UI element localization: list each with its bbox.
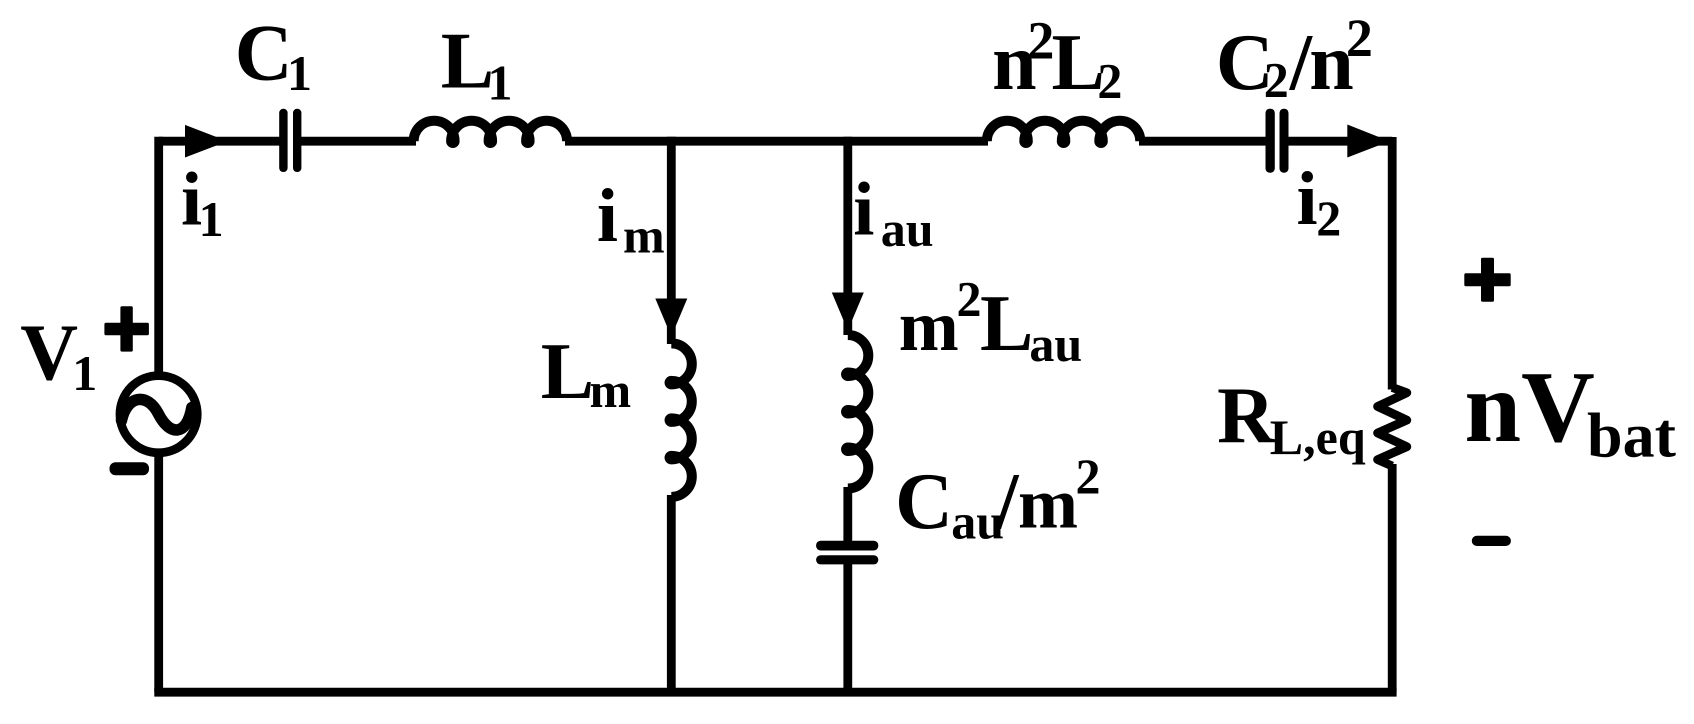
svg-text:C: C [895, 458, 953, 546]
wire right rail upper (corner to resistor) [1388, 137, 1397, 390]
plus sign at source [104, 323, 148, 335]
wire top rail: n2L2 to C2 [1139, 137, 1267, 146]
wire top rail: L1 to n2L2 [565, 137, 988, 146]
inductor m2Lau [846, 335, 868, 489]
wire branch au lower (Cau to bottom rail) [843, 563, 852, 692]
svg-text:V: V [20, 310, 78, 398]
wire top rail: source corner to C1 [159, 137, 280, 146]
arrow im [655, 299, 687, 337]
svg-text:m: m [1018, 464, 1078, 544]
svg-text:1: 1 [199, 191, 224, 247]
wire top rail: C2 to right corner [1288, 137, 1393, 146]
svg-text:m: m [590, 362, 632, 418]
svg-text:2: 2 [1076, 448, 1101, 504]
svg-text:nV: nV [1464, 351, 1594, 464]
svg-text:2: 2 [1264, 51, 1289, 107]
resistor RLeq zigzag [1378, 388, 1407, 467]
svg-text:L,eq: L,eq [1270, 409, 1366, 465]
svg-text:C: C [235, 10, 293, 98]
arrow i1 [185, 125, 228, 158]
wire left rail lower (source to bottom rail) [154, 451, 163, 692]
inductor n2L2 [987, 121, 1141, 143]
svg-text:au: au [1029, 316, 1082, 372]
capacitor C2/n2 plate left [1266, 109, 1275, 173]
svg-text:L: L [441, 18, 494, 106]
capacitor C1 plate right [293, 109, 301, 172]
capacitor C1 plate left [279, 109, 287, 172]
inductor L1 [414, 121, 567, 143]
minus sign at source [110, 462, 150, 475]
source V1 sine wave [122, 399, 192, 430]
svg-text:1: 1 [287, 45, 312, 101]
capacitor Cau plate top [816, 541, 878, 551]
arrow i2 [1347, 125, 1389, 158]
svg-text:m: m [623, 208, 665, 264]
svg-text:2: 2 [1097, 53, 1122, 109]
arrow iau [832, 293, 864, 331]
wire branch Lm lower (coil to bottom rail) [667, 495, 676, 692]
minus sign at output [1472, 536, 1511, 546]
svg-text:bat: bat [1587, 399, 1677, 470]
wire top rail: C1 to L1 [301, 137, 416, 146]
svg-text:i: i [1297, 157, 1318, 241]
svg-text:1: 1 [72, 345, 97, 401]
svg-text:L: L [980, 280, 1033, 368]
wire left rail upper (source to top rail) [154, 137, 163, 377]
svg-text:/: / [995, 458, 1020, 546]
svg-text:m: m [899, 286, 959, 366]
svg-text:i: i [597, 174, 618, 258]
capacitor Cau plate bottom [816, 555, 878, 564]
wire branch au upper (node to coil) [843, 137, 852, 335]
svg-text:2: 2 [1027, 10, 1054, 70]
svg-text:2: 2 [1346, 8, 1373, 68]
svg-text:2: 2 [957, 271, 982, 327]
wire branch au middle (coil to Cau) [843, 487, 852, 542]
capacitor C2/n2 plate right [1280, 109, 1289, 173]
plus sign at output [1464, 273, 1510, 286]
source V1 circle [120, 376, 197, 453]
wire branch Lm upper (node to coil) [667, 137, 676, 344]
svg-text:L: L [541, 328, 594, 416]
svg-text:1: 1 [488, 54, 513, 110]
svg-text:2: 2 [1316, 190, 1341, 246]
wire bottom rail [154, 688, 1396, 697]
inductor Lm [670, 343, 692, 497]
svg-text:i: i [853, 168, 874, 252]
svg-text:R: R [1217, 373, 1276, 461]
svg-text:au: au [881, 201, 934, 257]
wire right rail lower (resistor to bottom rail) [1388, 464, 1397, 692]
